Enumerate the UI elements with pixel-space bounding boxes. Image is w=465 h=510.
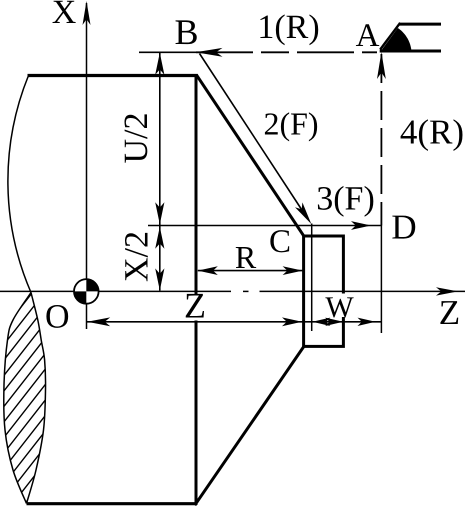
dimension line Z and W horizontal [87, 321, 381, 323]
node B extension line [139, 51, 196, 53]
svg-text:Z: Z [184, 286, 206, 326]
workpiece bottom edge [27, 502, 198, 505]
Z dim left arrowhead at origin [87, 317, 110, 326]
R right arrowhead [283, 266, 303, 275]
svg-text:A: A [356, 18, 380, 54]
tool symbol slant edge [380, 23, 400, 50]
origin symbol circle at O [74, 279, 99, 304]
svg-text:2(F): 2(F) [263, 106, 318, 142]
svg-text:R: R [235, 239, 257, 275]
X/2 top arrowhead [155, 227, 164, 249]
tool symbol filled nose [380, 28, 412, 53]
svg-text:B: B [174, 12, 198, 52]
Z dim right arrowhead [282, 317, 302, 326]
X/2 bottom arrowhead [155, 268, 164, 290]
svg-text:D: D [391, 208, 416, 247]
svg-text:O: O [45, 298, 70, 335]
break lens left arc [4, 293, 31, 504]
extension line below D [380, 226, 382, 334]
X axis line [86, 3, 88, 329]
top taper (cone surface) [196, 75, 304, 237]
workpiece top edge [28, 74, 198, 77]
svg-text:C: C [269, 224, 291, 260]
white background box behind W dimension label [325, 294, 354, 318]
arrowhead at A for 4(R) [377, 52, 386, 79]
extra arrowhead right of boss on dim line [358, 318, 376, 326]
arrowhead at C for 2(F) [295, 202, 311, 224]
dimension line U/2 and X/2 vertical [159, 53, 161, 291]
extension line below C [311, 224, 313, 332]
arrowhead at B for 1(R) [196, 48, 223, 57]
X axis arrowhead [83, 1, 91, 25]
boss (small cylinder stub) [304, 236, 344, 346]
svg-text:1(R): 1(R) [257, 9, 319, 46]
U/2 bottom arrowhead [155, 202, 164, 224]
svg-text:Z: Z [439, 293, 460, 332]
bottom taper (cone surface mirror) [195, 345, 305, 505]
arrowhead for 3(F) [351, 221, 371, 230]
break lens right arc [27, 293, 46, 504]
svg-text:X/2: X/2 [119, 231, 156, 282]
W dim left arrowhead [312, 318, 330, 326]
tool symbol top line [399, 23, 441, 26]
R left arrowhead [198, 266, 218, 275]
workpiece face vertical line [195, 74, 198, 505]
Z axis arrowhead [436, 287, 458, 295]
U/2 top arrowhead [155, 53, 164, 75]
dimension line R horizontal [198, 270, 303, 272]
svg-text:U/2: U/2 [118, 113, 155, 164]
tool symbol bottom line [380, 50, 441, 53]
W dim right arrowhead [325, 318, 343, 326]
Z axis centerline (chain line) [0, 290, 231, 292]
svg-text:4(R): 4(R) [400, 113, 464, 152]
break line upper arc [8, 76, 31, 293]
path 3(F) feed line C-D [148, 225, 381, 227]
path 4(R) dashed rapid line D-A [380, 54, 382, 226]
white background box behind Z dimension label [181, 295, 210, 321]
svg-text:3(F): 3(F) [316, 181, 375, 218]
path 1(R) dashed rapid line B-A [196, 51, 377, 53]
svg-text:W: W [325, 291, 354, 324]
path 2(F) feed line B-C [200, 54, 307, 218]
svg-text:X: X [52, 0, 77, 31]
